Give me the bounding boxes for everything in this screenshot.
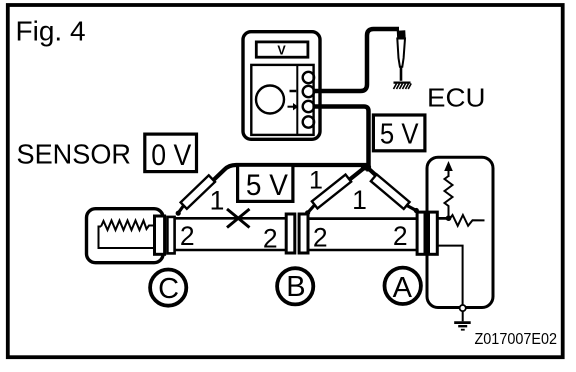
test probe B (312, 175, 351, 209)
svg-text:5 V: 5 V (380, 119, 419, 151)
supply arrow (444, 161, 453, 171)
wire to probe A (369, 169, 393, 191)
svg-text:1: 1 (210, 186, 225, 216)
svg-text:2: 2 (393, 221, 408, 251)
svg-text:5 V: 5 V (246, 169, 288, 202)
label 0 V box (145, 134, 197, 172)
wire meter down to probes junction (314, 107, 369, 172)
wire pin2 bus B to A (306, 249, 420, 252)
svg-text:2: 2 (313, 222, 328, 252)
node A (385, 268, 421, 304)
wire sensor resistor to pin 2 (99, 227, 156, 249)
ground (454, 321, 471, 324)
connector B (286, 214, 295, 253)
svg-text:0 V: 0 V (151, 139, 191, 172)
svg-text:B: B (286, 271, 305, 303)
label 5 V box middle (238, 165, 293, 201)
contact hatch (394, 81, 411, 83)
test probe at ECU (top right) (397, 31, 406, 39)
test probe A (371, 174, 410, 209)
wire meter to top probe (314, 29, 399, 91)
svg-text:1: 1 (309, 166, 323, 194)
svg-text:A: A (393, 272, 413, 304)
resistor R horizontal in ECU (449, 215, 485, 226)
multimeter dial (256, 86, 284, 114)
open circuit X mark (227, 209, 250, 228)
multimeter display (256, 42, 308, 57)
resistor in sensor (101, 221, 155, 231)
label 5 V box right (373, 115, 425, 151)
wire pin1 bus B to A (306, 217, 420, 220)
test probe C (181, 175, 215, 208)
wire ECU pin 2 to ground (437, 246, 463, 305)
wire ECU pin 1 (420, 217, 449, 220)
node on ECU border (460, 305, 466, 311)
multimeter body (243, 32, 320, 140)
node B (277, 268, 313, 304)
svg-text:ECU: ECU (427, 82, 486, 112)
minus mark (290, 90, 297, 93)
svg-text:V: V (277, 44, 286, 58)
input arrow mark (288, 106, 294, 108)
resistor R vertical in ECU (445, 176, 453, 216)
ECU body (427, 157, 493, 307)
svg-text:Fig. 4: Fig. 4 (16, 15, 86, 46)
junction dot (446, 215, 452, 221)
junction (361, 163, 371, 170)
svg-text:C: C (158, 273, 179, 305)
svg-text:SENSOR: SENSOR (17, 139, 132, 170)
wire branch to probe C (201, 165, 369, 192)
terminal jacks (303, 72, 314, 83)
svg-text:2: 2 (180, 221, 195, 251)
node C (150, 270, 186, 306)
svg-text:1: 1 (352, 185, 367, 215)
wire to probe B (334, 167, 366, 193)
svg-text:Z017007E02: Z017007E02 (475, 331, 558, 348)
multimeter panel (251, 65, 313, 135)
sensor body (87, 209, 164, 263)
wire pin2 bus C to B (168, 249, 290, 252)
svg-text:2: 2 (263, 223, 278, 253)
connector C (155, 216, 165, 254)
wire pin1 bus C to B (168, 217, 290, 220)
connector A (417, 212, 425, 254)
